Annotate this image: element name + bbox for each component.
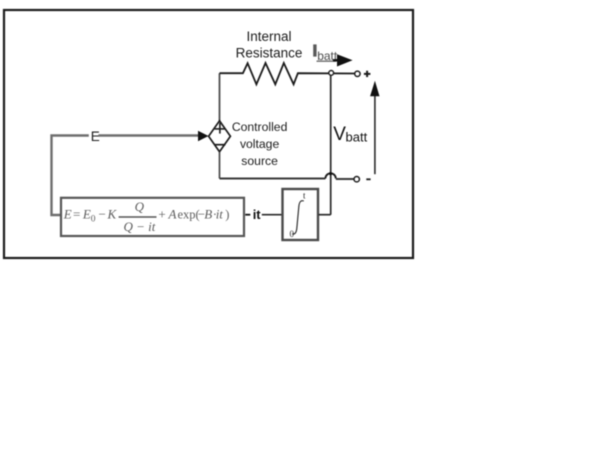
svg-text:0: 0	[290, 229, 295, 239]
svg-text:Q: Q	[135, 199, 145, 214]
svg-text:E: E	[91, 129, 100, 144]
svg-text:B: B	[204, 206, 212, 221]
svg-text:it: it	[216, 206, 224, 221]
svg-text:Internal: Internal	[246, 29, 291, 44]
svg-text:Q − it: Q − it	[123, 219, 155, 234]
svg-text:Resistance: Resistance	[236, 46, 303, 61]
svg-text:source: source	[241, 154, 278, 168]
svg-text:−: −	[99, 206, 106, 221]
svg-text:it: it	[253, 207, 262, 222]
svg-text:exp(: exp(	[178, 207, 200, 221]
svg-text:batt: batt	[346, 130, 368, 145]
svg-text:0: 0	[91, 215, 96, 225]
svg-text:): )	[225, 207, 229, 221]
svg-text:voltage: voltage	[240, 137, 280, 151]
svg-text:V: V	[333, 124, 346, 145]
svg-text:A: A	[168, 206, 177, 221]
svg-text:K: K	[107, 206, 118, 221]
svg-text:Controlled: Controlled	[232, 120, 288, 134]
svg-text:+: +	[158, 206, 165, 221]
svg-text:E: E	[82, 206, 91, 221]
svg-text:E: E	[63, 206, 72, 221]
svg-text:=: =	[73, 206, 80, 221]
